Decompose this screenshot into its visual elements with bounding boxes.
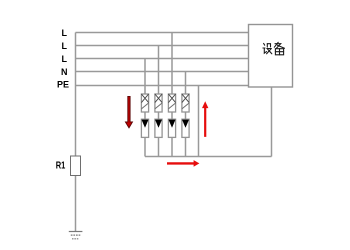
svg-text:L: L [62,54,68,64]
svg-text:N: N [61,67,68,77]
svg-text:L: L [62,41,68,51]
svg-text:R1: R1 [56,161,66,172]
svg-text:L: L [62,28,68,38]
svg-text:PE: PE [57,80,69,90]
